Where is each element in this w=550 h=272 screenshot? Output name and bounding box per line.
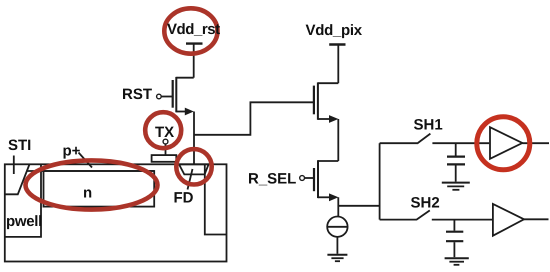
annotation circle around TX xyxy=(145,112,181,148)
transistor RSEL channel xyxy=(317,160,319,198)
svg-text:n: n xyxy=(83,185,92,202)
FD pointer xyxy=(188,169,193,190)
FD wire xyxy=(193,112,195,165)
transistor RST drain lead xyxy=(176,77,193,79)
FD implant xyxy=(179,164,209,174)
svg-text:SH1: SH1 xyxy=(414,117,443,134)
ground xyxy=(327,254,347,256)
SH2 wire to buffer xyxy=(432,219,493,221)
RST terminal circle xyxy=(157,94,162,99)
svg-text:Vdd_pix: Vdd_pix xyxy=(306,22,363,39)
svg-text:p+: p+ xyxy=(63,143,81,160)
SH2 switch xyxy=(416,210,430,220)
substrate outline xyxy=(5,164,227,261)
svg-text:SH2: SH2 xyxy=(411,195,440,212)
capacitor C1 xyxy=(447,156,465,158)
Vdd_rst rail xyxy=(186,42,203,44)
pwell region xyxy=(5,164,41,237)
svg-text:R_SEL: R_SEL xyxy=(248,171,296,188)
SH1 wire to buffer xyxy=(432,142,489,144)
capacitor C2 xyxy=(446,231,463,233)
svg-text:TX: TX xyxy=(155,124,174,141)
annotation ellipse around n xyxy=(26,160,158,209)
RSEL gate lead xyxy=(305,177,315,179)
SH1 switch xyxy=(417,134,430,144)
RST source arrow xyxy=(185,108,194,116)
SH1 branch wire xyxy=(380,142,417,144)
svg-text:pwell: pwell xyxy=(6,213,42,230)
n region xyxy=(44,171,155,207)
RSEL terminal circle xyxy=(300,176,305,181)
buffer A2 xyxy=(493,204,524,236)
right n+ box xyxy=(205,164,227,234)
SF source lead xyxy=(318,118,330,120)
TX gate xyxy=(152,155,177,162)
wire output node to S/H bus xyxy=(338,205,379,207)
RST gate lead xyxy=(161,96,172,98)
transistor SF gate bar xyxy=(313,86,315,115)
C1 bottom wire xyxy=(455,165,457,181)
A2 output wire xyxy=(524,218,549,220)
Vdd_pix rail xyxy=(329,43,345,45)
STI pointer xyxy=(13,156,15,175)
SH2 branch wire xyxy=(380,219,416,221)
A1 output wire xyxy=(522,142,549,144)
wire rail to RST drain xyxy=(193,44,195,78)
svg-text:STI: STI xyxy=(8,137,31,154)
transistor SF channel xyxy=(317,82,319,119)
buffer A1 xyxy=(490,127,522,159)
annotation ellipse around Vdd_rst xyxy=(164,8,217,53)
svg-text:RST: RST xyxy=(122,86,152,103)
TX node circle xyxy=(163,139,168,144)
C2 bottom wire xyxy=(453,242,455,257)
transistor RST channel xyxy=(175,77,177,112)
C1 top wire xyxy=(455,143,457,155)
transistor RSEL drain lead xyxy=(318,160,338,162)
SF source arrow xyxy=(329,115,338,123)
RSEL source lead xyxy=(318,196,330,198)
svg-text:FD: FD xyxy=(174,190,194,207)
svg-text:Vdd_rst: Vdd_rst xyxy=(167,21,220,38)
p+ layer line xyxy=(27,170,154,172)
p+ pointer xyxy=(79,153,93,168)
TX wire xyxy=(165,144,167,155)
wire FD node to SF gate xyxy=(194,102,314,135)
C1 ground xyxy=(442,182,470,184)
wire RSEL source to current source xyxy=(337,197,339,216)
transistor RST gate bar xyxy=(172,80,174,108)
C2 ground xyxy=(445,257,469,259)
transistor RSEL gate bar xyxy=(313,168,315,191)
annotation circle around buffer A1 xyxy=(477,117,530,170)
RSEL source arrow xyxy=(329,193,338,201)
C2 top wire xyxy=(453,220,455,231)
annotation circle around FD xyxy=(176,149,211,184)
RST source lead xyxy=(176,111,186,113)
STI region xyxy=(5,165,30,195)
S/H bus wire xyxy=(379,143,381,219)
wire rail to SF drain xyxy=(337,45,339,84)
current source I1 xyxy=(327,217,347,237)
wire SF source to RSEL drain xyxy=(337,119,339,161)
transistor SF drain lead xyxy=(318,82,338,84)
wire current source to ground xyxy=(336,237,338,254)
